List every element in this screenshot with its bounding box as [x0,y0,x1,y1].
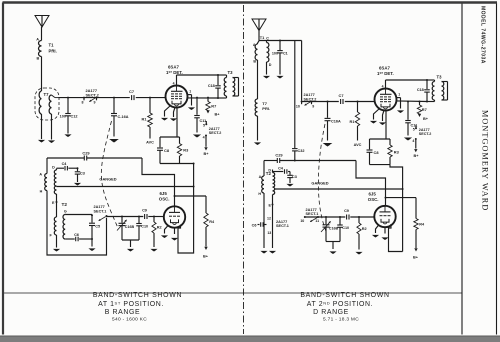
transformer T3 IF primary [218,74,227,76]
svg-text:C32: C32 [298,149,305,153]
wire plate branch to R4 [174,195,176,197]
capacitor C16B right variable [325,217,327,224]
resistor R4 to B+ [205,196,207,213]
svg-text:BAND-SWITCH SHOWN: BAND-SWITCH SHOWN [93,292,182,299]
svg-text:H: H [258,192,261,196]
dashed gang link right [318,124,327,234]
svg-text:AVC: AVC [146,140,154,144]
transformer T2 right winding A-H [263,161,265,177]
svg-text:PRI.: PRI. [262,106,270,111]
capacitor C9 [144,214,146,219]
capacitor C9 right [346,215,348,220]
svg-text:A: A [259,175,262,179]
wire staircase right [356,161,386,207]
network C8 R3 bias loop [160,136,180,138]
svg-text:SECT.2: SECT.2 [209,131,222,135]
svg-text:C3: C3 [80,171,85,175]
svg-text:540 - 1600 KC: 540 - 1600 KC [112,316,147,322]
svg-text:SECT.1: SECT.1 [306,212,319,216]
antenna (left half) [35,16,49,28]
svg-text:SECT.2: SECT.2 [86,92,100,97]
svg-text:C12: C12 [71,114,78,118]
capacitor C11 to ground [196,98,198,115]
transformer T2 winding A-H [45,174,47,191]
wire left box outline [46,158,48,174]
svg-text:B+: B+ [215,112,221,116]
svg-text:E: E [269,203,272,207]
svg-text:13: 13 [267,231,271,235]
svg-text:B+: B+ [413,256,419,260]
svg-text:B+: B+ [204,152,210,156]
resistor R2 right with ground [358,217,360,223]
svg-text:G: G [64,209,67,213]
wire cathode down from 6SA7 right [385,111,387,140]
node E junction [56,201,58,203]
svg-text:SECT.2: SECT.2 [304,97,317,101]
svg-text:AVC: AVC [354,143,362,147]
coil T1 secondary C-D right [266,41,268,43]
wire ganged feedback line right [275,188,403,190]
svg-text:B+: B+ [203,255,209,259]
wire 6J5 cathode return [178,164,194,254]
capacitor C16A right with ground [327,102,329,118]
svg-text:C1: C1 [283,51,288,55]
network C8 R3 right [370,138,391,140]
transformer T3 IF secondary right [442,82,444,101]
transformer T7 dashed shield can [35,88,59,120]
capacitor C18 right [426,80,428,89]
svg-text:B: B [253,59,256,63]
outer right border [496,3,498,335]
transformer T2 winding F [54,217,56,235]
svg-text:AT 2ND POSITION.: AT 2ND POSITION. [307,301,373,308]
svg-text:C7: C7 [339,93,344,98]
ground pins 6J5 right [376,225,380,234]
wire cathode down from 6SA7 [176,108,178,138]
svg-text:9: 9 [312,105,314,109]
svg-text:C18: C18 [417,88,424,92]
svg-text:2A177: 2A177 [209,127,220,131]
wire antenna lead-in [41,27,43,41]
svg-text:C3: C3 [292,175,297,179]
inner right border [461,3,463,335]
svg-text:5: 5 [413,128,415,132]
svg-text:R1: R1 [142,117,148,122]
svg-text:F: F [50,234,53,238]
svg-text:6J5: 6J5 [369,192,377,197]
svg-text:MONTGOMERY WARD: MONTGOMERY WARD [481,110,490,211]
svg-text:100: 100 [60,114,66,118]
svg-text:C16B: C16B [125,225,135,229]
svg-text:A: A [39,173,42,177]
svg-text:D: D [269,63,272,67]
capacitor C16B variable with arrow [121,217,123,223]
capacitor C18 [217,75,219,85]
svg-text:1: 1 [189,90,191,94]
resistor R7 right to B+ [419,102,421,106]
svg-text:R7: R7 [211,104,216,109]
transformer T3 IF primary right [427,79,435,81]
wire G winding to switch [65,214,92,216]
ground pins 6J5 [165,225,169,234]
wire oscillator grid line [107,216,144,218]
svg-text:B RANGE: B RANGE [105,309,140,316]
svg-text:C6: C6 [74,233,79,237]
wire ganged feedback line [57,186,194,188]
svg-text:OSC.: OSC. [368,197,379,202]
capacitor C10 right [339,217,341,225]
switch 2A177 SECT.2 plate contacts 5-4 [205,121,207,124]
svg-text:9: 9 [94,101,96,105]
svg-text:R4: R4 [209,220,215,224]
svg-text:C6: C6 [252,223,257,227]
capacitor C3 right with ground [289,172,291,175]
transformer T2 right winding D-E [272,170,274,173]
svg-text:C4: C4 [62,162,68,166]
wire 6SA7 to screen node right [397,100,428,103]
svg-text:T2: T2 [62,202,68,207]
wire bus drop 1 with C32 [294,41,296,149]
svg-text:SECT.1: SECT.1 [94,209,107,213]
svg-text:T1: T1 [49,43,55,48]
resistor R1 [149,98,151,113]
wire plate branch to R4 right [385,197,387,199]
svg-text:T3: T3 [437,74,443,79]
wire T1 to T7 PRI right [257,60,259,99]
wire plate line right [385,80,387,89]
svg-text:1ST DET.: 1ST DET. [166,70,183,75]
ground cathode pins 6SA7 [165,106,171,117]
svg-text:T3: T3 [228,70,234,75]
bottom gray bar [0,336,500,342]
capacitor C5 with ground [91,215,93,222]
svg-text:C16A: C16A [331,119,341,123]
svg-text:A: A [253,43,256,47]
dashed gang link left [101,121,118,228]
svg-text:C: C [266,36,269,40]
svg-text:11: 11 [315,219,319,223]
capacitor C7 [131,95,133,100]
left border [2,3,4,335]
capacitor C4 [57,167,65,169]
svg-text:C8: C8 [164,148,170,153]
svg-text:6J5: 6J5 [160,191,168,196]
svg-text:E: E [52,201,55,205]
resistor R4 right to B+ [415,198,417,219]
svg-text:R2: R2 [157,225,162,229]
antenna (right half) [252,19,266,31]
svg-text:H: H [40,190,43,194]
svg-text:R3: R3 [394,149,400,154]
ground below T7 secondary [51,114,53,140]
svg-text:AT 1ST POSITION.: AT 1ST POSITION. [98,301,164,308]
svg-text:C29: C29 [275,153,283,158]
capacitor C10 [138,217,140,224]
svg-text:C10: C10 [141,224,148,228]
svg-text:GANGED: GANGED [311,180,328,185]
capacitor C12 with ground [67,98,69,113]
wire bus drop 2 to switch [301,41,303,101]
wire T1 to T7 [41,57,43,92]
svg-text:8: 8 [82,101,84,105]
ground cathode pins 6SA7 right [374,109,380,120]
svg-text:C18: C18 [208,84,215,88]
switch 2A177 SECT.1 right contacts 10-11 [304,216,306,218]
svg-text:1: 1 [398,93,400,97]
tube 6J5 oscillator right U4 [374,206,395,227]
separator rule above captions [4,292,463,294]
wire RF grid line [59,97,130,99]
coil T1 PRI (left half) [39,41,42,57]
resistor R2 with ground [153,217,155,223]
wire tank bottom right with ground [326,241,340,243]
svg-text:D RANGE: D RANGE [313,309,349,316]
resistor R7 to B+ [207,98,209,102]
svg-text:6SA7: 6SA7 [168,64,179,69]
wire oscillator grid line right [305,216,346,218]
fold line center [243,5,245,334]
svg-text:4: 4 [412,139,414,143]
svg-text:4: 4 [173,81,175,85]
svg-text:GANGED: GANGED [99,177,116,182]
coil T7 PRI right [255,99,257,116]
transformer T3 IF secondary [233,78,235,97]
wire oscillator box top right with C29 [264,160,277,162]
svg-text:R4: R4 [419,223,425,227]
svg-text:C-16A: C-16A [118,115,129,119]
svg-text:B+: B+ [423,117,429,121]
svg-text:C9: C9 [344,209,349,213]
wire 6SA7 to screen node [188,97,219,99]
svg-text:MODEL 74WG-2703A: MODEL 74WG-2703A [480,6,486,64]
svg-text:6SA7: 6SA7 [379,65,390,70]
wire plate line 6SA7 [176,75,178,86]
svg-text:4: 4 [382,84,384,88]
capacitor C6 right [258,224,260,226]
switch SECT.2 plate contacts 5-4 right [415,125,417,128]
svg-text:C8: C8 [374,150,380,155]
svg-text:A: A [36,38,39,42]
capacitor C7 right [340,99,342,104]
top border [3,1,498,4]
wire antenna top bus [259,40,302,42]
svg-text:C11: C11 [200,119,207,123]
svg-text:C7: C7 [129,89,134,94]
svg-text:4: 4 [203,135,205,139]
resistor R1 right [357,102,359,113]
wire RF grid line right [302,101,339,103]
transformer T2 winding D-E [56,169,58,171]
transformer T2 winding G [64,213,66,216]
wire tank bottom with ground [122,239,139,241]
ground below T7 primary [41,114,43,139]
wire staircase to oscillator plate [142,158,175,206]
svg-text:OSC.: OSC. [159,197,170,202]
svg-text:T1: T1 [260,35,265,40]
wire bias return step right [390,165,403,252]
svg-text:PRI.: PRI. [49,49,57,54]
svg-text:SECT.2: SECT.2 [419,132,432,136]
svg-text:R7: R7 [422,107,427,112]
svg-text:D: D [52,165,55,169]
svg-text:C5: C5 [95,225,100,229]
wire antenna lead-in right [258,31,260,42]
coil T1 primary A-B right [257,43,259,44]
wire oscillator box top with C29 [47,157,84,159]
svg-text:B+: B+ [414,154,420,158]
svg-text:BAND-SWITCH SHOWN: BAND-SWITCH SHOWN [300,292,389,299]
svg-text:R2: R2 [362,227,367,231]
svg-text:D: D [268,168,271,172]
svg-text:2A177: 2A177 [276,220,287,224]
tube 6J5 oscillator U2 [164,206,185,227]
capacitor C6 from G winding [65,238,75,240]
svg-text:C4: C4 [278,166,284,170]
svg-text:10: 10 [300,219,304,223]
capacitor C11 right to ground [407,102,409,120]
switch 2A177 SECT.2 right contacts 10-9 [301,101,303,103]
switch 2A177 SECT.2 contacts 8-9 [83,97,85,99]
svg-text:5.71 - 18.3 MC: 5.71 - 18.3 MC [323,316,359,322]
svg-text:R3: R3 [183,148,189,153]
svg-text:C16B: C16B [329,226,339,230]
svg-text:12: 12 [267,216,271,220]
svg-text:C9: C9 [142,208,147,212]
tube 6SA7 1st detector right U3 [375,89,397,111]
capacitor C4 right [273,171,284,173]
svg-text:SECT.1: SECT.1 [276,224,289,228]
svg-text:1ST DET.: 1ST DET. [377,71,394,76]
svg-text:100: 100 [272,51,278,55]
svg-text:2A177: 2A177 [419,128,430,132]
transformer T7 windings [39,91,41,114]
capacitor C3 with ground [77,168,79,171]
tube 6SA7 1st detector U1 [166,86,188,108]
svg-text:5: 5 [203,124,205,128]
svg-text:10: 10 [296,104,300,108]
svg-text:R1: R1 [350,119,356,124]
capacitor C1 with ground [279,41,281,51]
svg-text:B: B [37,56,40,60]
svg-text:C10: C10 [342,226,349,230]
svg-text:T7: T7 [44,92,50,97]
capacitor C16A tuning with ground [113,98,115,113]
wire 6J5 cathode return right [389,224,403,252]
svg-text:C29: C29 [82,150,90,155]
switch 2A177 SECT.1 contacts [91,214,93,216]
